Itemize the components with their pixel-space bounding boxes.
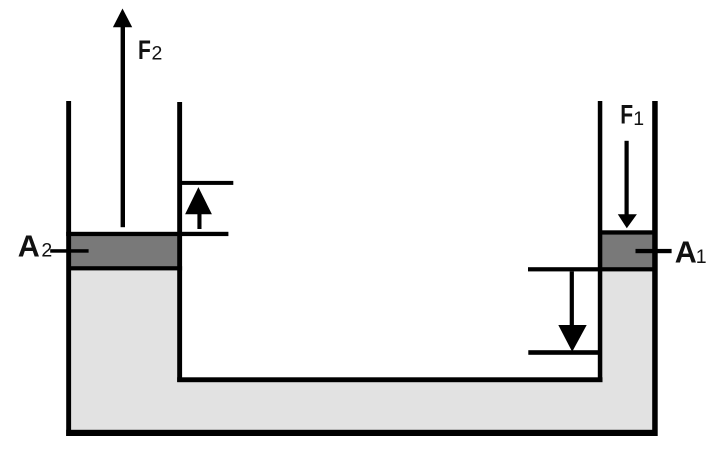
svg-text:A: A [18, 230, 40, 264]
svg-text:1: 1 [696, 246, 707, 268]
svg-text:F: F [620, 100, 633, 130]
svg-text:2: 2 [41, 240, 52, 262]
svg-text:2: 2 [152, 43, 163, 65]
svg-text:F: F [138, 36, 151, 66]
svg-text:1: 1 [633, 108, 644, 130]
svg-text:A: A [675, 235, 697, 269]
